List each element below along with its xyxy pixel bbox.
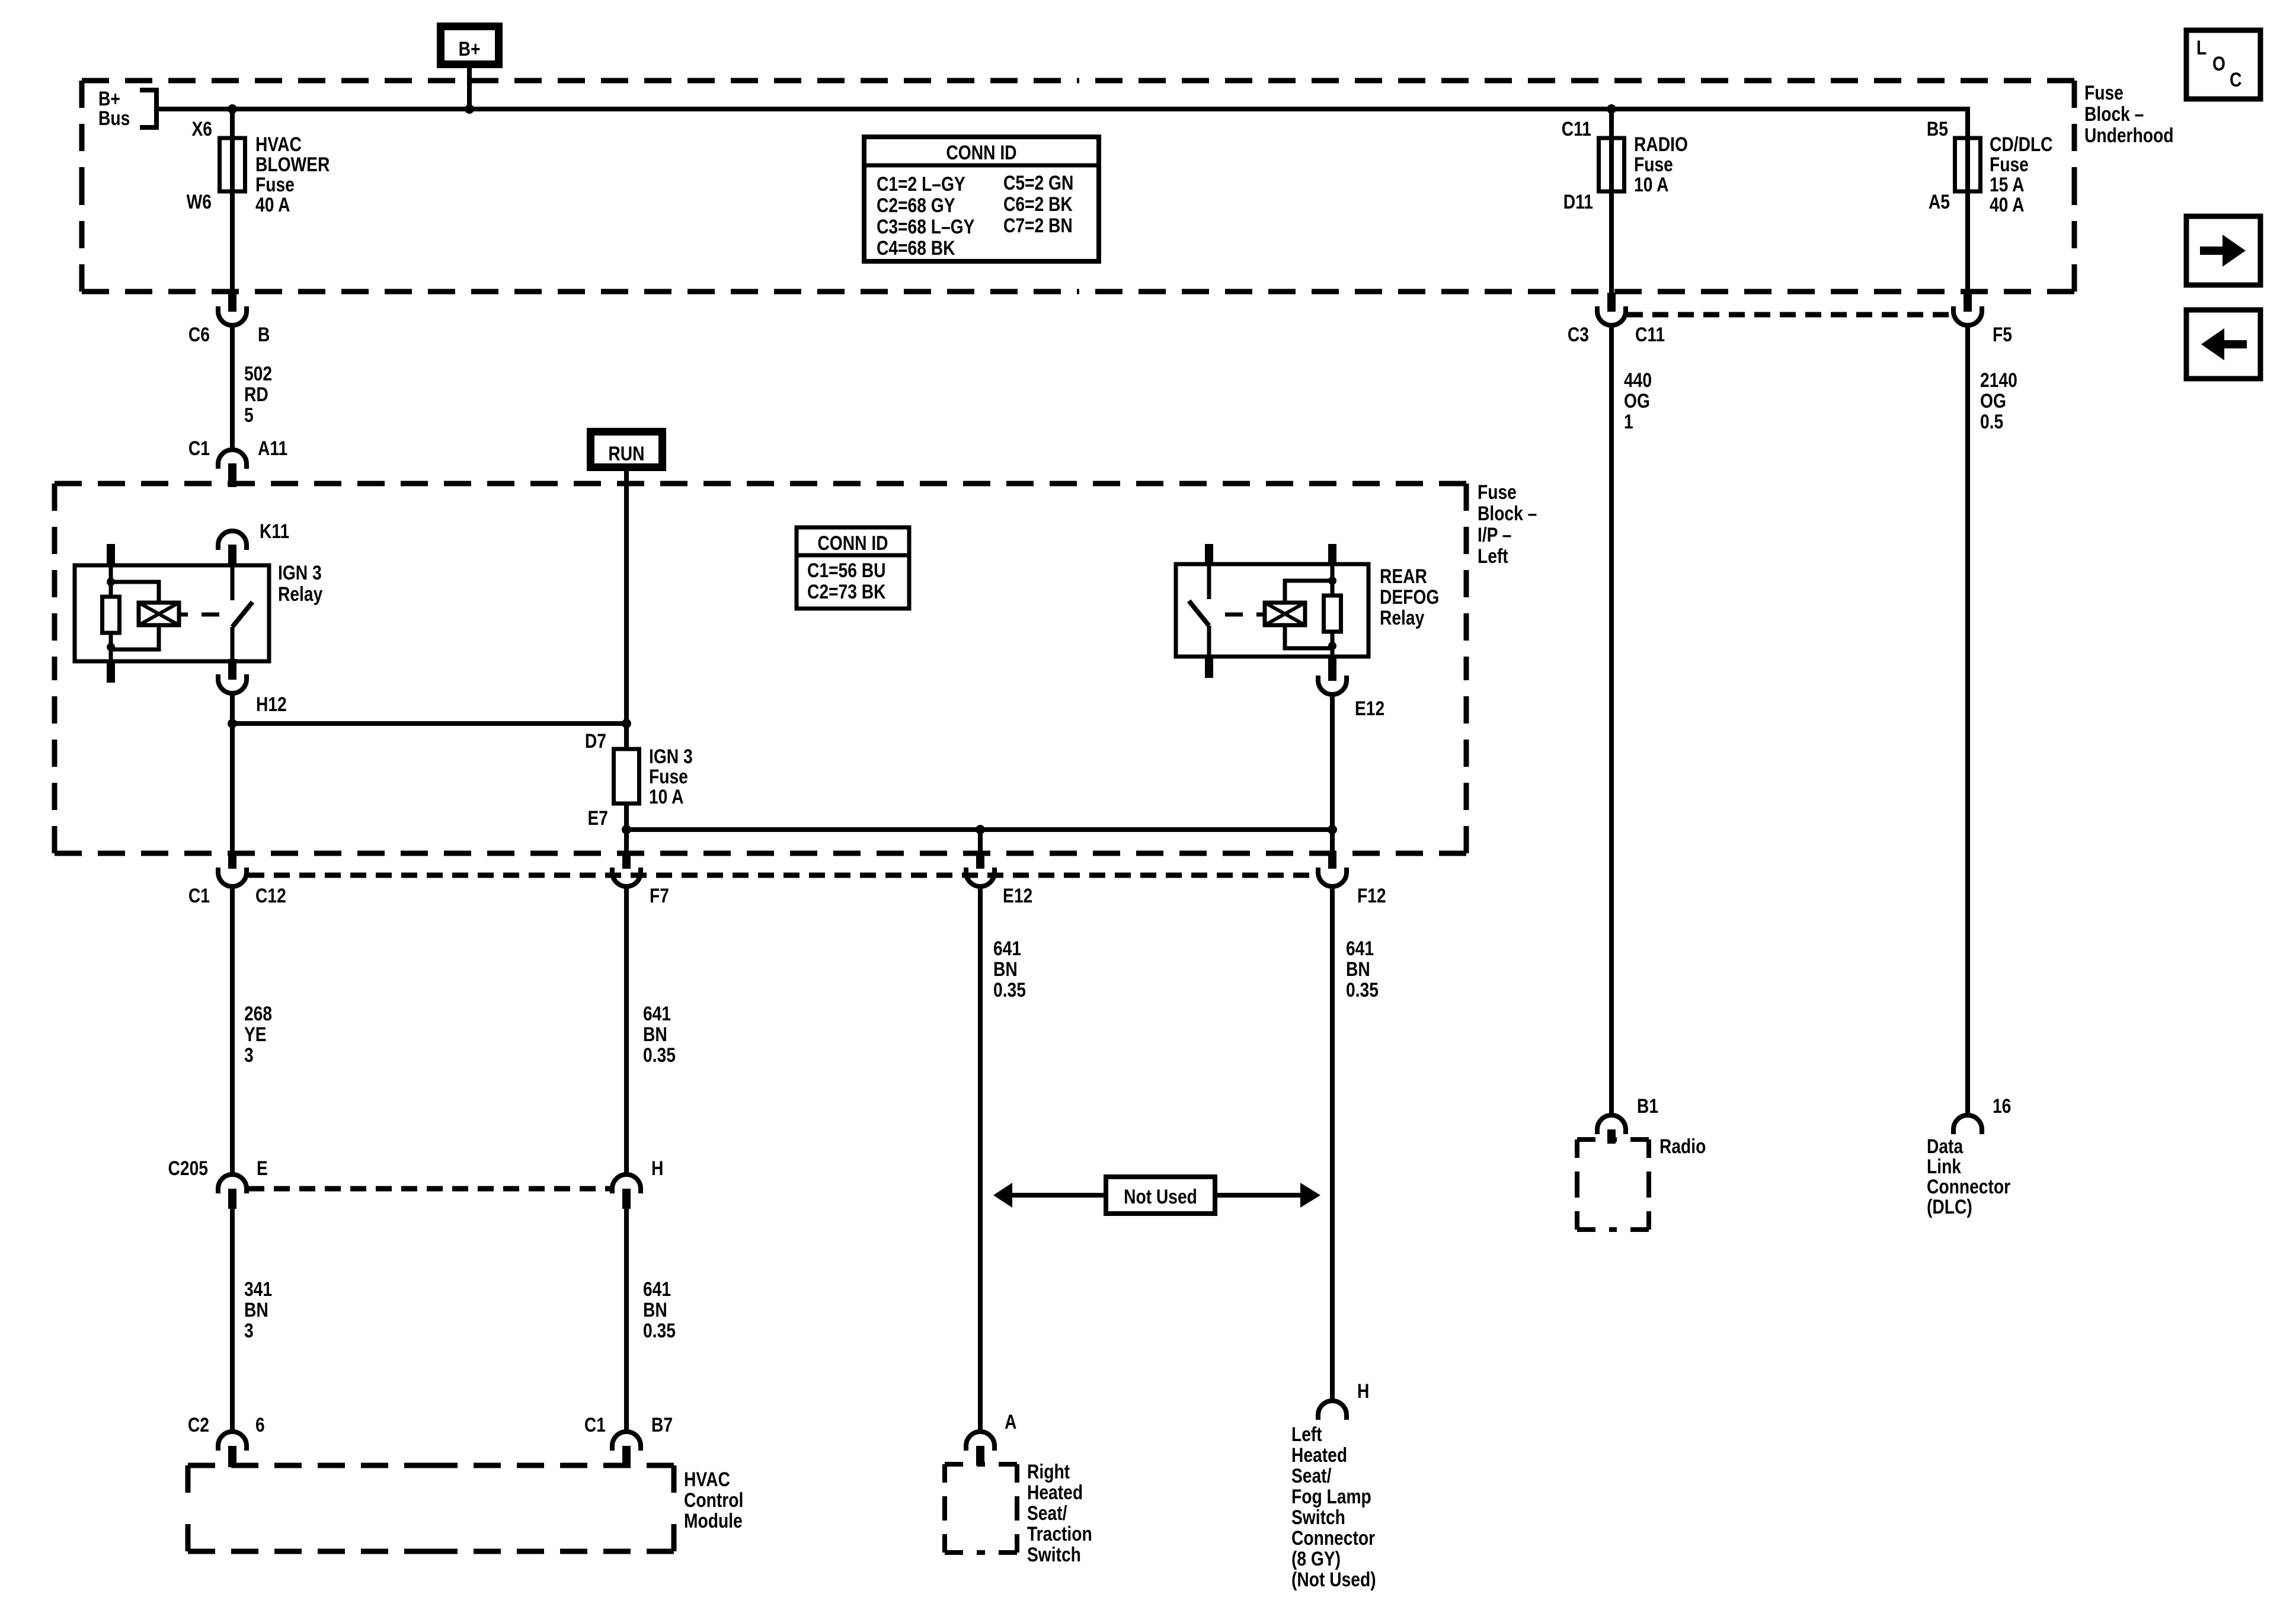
connector C205 terminal E <box>218 1174 247 1193</box>
connector pair dotted line C3 to F5 <box>1627 312 1952 318</box>
page arrow back box <box>2186 310 2260 379</box>
svg-text:BN: BN <box>244 1299 268 1321</box>
svg-text:Control: Control <box>684 1489 743 1512</box>
svg-text:40 A: 40 A <box>255 194 290 216</box>
svg-text:Fuse: Fuse <box>1634 153 1673 176</box>
svg-text:OG: OG <box>1624 390 1650 412</box>
fuse HVAC BLOWER 40A <box>220 138 245 191</box>
connector C6 terminal B <box>228 293 236 312</box>
svg-text:B7: B7 <box>651 1414 673 1436</box>
svg-text:6: 6 <box>255 1414 265 1436</box>
connector C205 terminal H <box>612 1174 641 1193</box>
svg-text:16: 16 <box>1993 1095 2011 1118</box>
svg-text:Relay: Relay <box>1380 607 1425 629</box>
wire RUN to IGN3 fuse <box>624 471 629 749</box>
svg-text:2140: 2140 <box>1980 369 2017 392</box>
svg-text:Relay: Relay <box>278 583 323 606</box>
junction B+ flag tap <box>465 104 474 114</box>
svg-text:K11: K11 <box>260 520 289 543</box>
svg-text:E: E <box>257 1157 268 1180</box>
defog coil resistor <box>1324 596 1341 632</box>
svg-text:C3: C3 <box>1568 324 1589 346</box>
svg-text:0.35: 0.35 <box>1346 979 1379 1001</box>
svg-text:L: L <box>2196 37 2207 59</box>
Not Used box <box>1106 1177 1215 1214</box>
connector DLC terminal 16 <box>1953 1115 1982 1134</box>
svg-text:(8 GY): (8 GY) <box>1291 1548 1341 1570</box>
relay IGN 3 box <box>75 565 269 661</box>
svg-text:10 A: 10 A <box>1634 174 1669 196</box>
fuse block - I/P left dashed box <box>55 481 760 486</box>
svg-text:Switch: Switch <box>1027 1544 1081 1566</box>
relay REAR DEFOG box <box>1176 564 1368 657</box>
Radio dashed box <box>1577 1137 1613 1142</box>
svg-text:15 A: 15 A <box>1990 174 2025 196</box>
svg-text:268: 268 <box>244 1003 272 1025</box>
svg-text:0.35: 0.35 <box>643 1044 676 1067</box>
relay coil resistor <box>103 597 120 633</box>
svg-text:Not Used: Not Used <box>1124 1186 1197 1208</box>
svg-text:Fuse: Fuse <box>2084 82 2124 104</box>
defog coil pin stub top <box>1328 544 1336 564</box>
junction H12 horizontal <box>228 719 237 728</box>
svg-text:B1: B1 <box>1637 1095 1658 1118</box>
fuse block - underhood dashed box <box>82 78 1078 84</box>
svg-text:Fuse: Fuse <box>1478 481 1517 504</box>
junction H12 branch <box>622 719 631 728</box>
svg-text:B+: B+ <box>459 38 481 60</box>
node B+ Bus bracket <box>140 90 156 127</box>
svg-text:C1=56 BU: C1=56 BU <box>807 559 886 582</box>
defog switch <box>1207 564 1211 599</box>
svg-text:D11: D11 <box>1563 191 1593 213</box>
svg-text:HVAC: HVAC <box>255 133 302 156</box>
wire defog E12 down <box>1330 694 1335 856</box>
svg-text:B5: B5 <box>1927 118 1948 140</box>
svg-text:CD/DLC: CD/DLC <box>1990 133 2053 156</box>
wire bus corner down to CD/DLC fuse <box>1965 107 1970 140</box>
svg-text:C4=68 BK: C4=68 BK <box>877 237 955 260</box>
svg-text:RUN: RUN <box>608 443 644 465</box>
fuse CD/DLC 15A 40A <box>1955 138 1981 191</box>
wire 341 BN 3 <box>230 1209 235 1433</box>
svg-text:0.35: 0.35 <box>993 979 1026 1001</box>
svg-text:C11: C11 <box>1562 118 1591 140</box>
svg-text:D7: D7 <box>585 730 606 753</box>
svg-text:Bus: Bus <box>98 107 130 130</box>
svg-text:C12: C12 <box>255 885 286 907</box>
svg-text:641: 641 <box>1346 937 1374 960</box>
relay coil loop <box>111 582 159 603</box>
connector terminal H left heated seat <box>1318 1401 1347 1420</box>
Right Heated Seat dashed box <box>945 1462 981 1467</box>
fuse RADIO 10A <box>1599 138 1625 191</box>
connector terminal A <box>966 1432 994 1451</box>
svg-text:BLOWER: BLOWER <box>255 153 330 176</box>
junction coil bottom <box>107 643 115 651</box>
svg-text:C2=68 GY: C2=68 GY <box>877 194 955 217</box>
svg-text:C1: C1 <box>188 437 210 460</box>
svg-text:F12: F12 <box>1357 885 1386 907</box>
wire 502 RD 5 <box>230 325 235 450</box>
svg-text:CONN ID: CONN ID <box>946 142 1016 164</box>
svg-text:BN: BN <box>993 958 1018 981</box>
wire IGN3 fuse to E7 bus <box>624 804 629 830</box>
connector H12 <box>228 659 236 680</box>
svg-text:O: O <box>2212 53 2225 75</box>
svg-text:641: 641 <box>643 1278 671 1301</box>
svg-text:IGN 3: IGN 3 <box>278 562 322 584</box>
wire CD/DLC fuse to F5 <box>1965 191 1970 294</box>
svg-text:Seat/: Seat/ <box>1291 1465 1332 1487</box>
wire B+ flag to bus <box>467 68 472 109</box>
svg-text:C7=2 BN: C7=2 BN <box>1003 215 1073 237</box>
svg-text:RD: RD <box>244 383 268 406</box>
wire H12 down <box>230 693 235 856</box>
svg-text:Block –: Block – <box>2084 103 2144 126</box>
connector terminal F7 <box>624 830 629 854</box>
svg-text:3: 3 <box>244 1044 254 1067</box>
svg-text:C1: C1 <box>188 885 210 907</box>
junction E12 drop <box>976 825 985 834</box>
svg-text:Heated: Heated <box>1027 1481 1083 1504</box>
svg-text:Left: Left <box>1291 1423 1322 1446</box>
svg-text:Fuse: Fuse <box>1990 153 2029 176</box>
svg-text:Link: Link <box>1927 1156 1962 1178</box>
defog coil loop <box>1285 581 1332 603</box>
connector terminal E12 <box>978 830 983 854</box>
RUN power flag <box>587 428 666 471</box>
table CONN ID underhood <box>864 137 1099 261</box>
svg-text:H: H <box>1357 1380 1369 1403</box>
svg-text:Fog Lamp: Fog Lamp <box>1291 1486 1371 1508</box>
svg-text:BN: BN <box>643 1023 667 1046</box>
svg-text:BN: BN <box>643 1299 667 1321</box>
wire bus to RADIO fuse <box>1609 109 1614 140</box>
table CONN ID I/P <box>797 527 909 609</box>
svg-text:IGN 3: IGN 3 <box>649 745 693 768</box>
svg-text:641: 641 <box>643 1003 671 1025</box>
svg-text:Data: Data <box>1927 1135 1964 1158</box>
svg-text:A: A <box>1005 1411 1016 1433</box>
svg-text:A5: A5 <box>1929 191 1950 213</box>
connector row dotted line C12 to F12 <box>248 873 1317 878</box>
svg-text:C1: C1 <box>584 1414 606 1436</box>
svg-text:C2: C2 <box>188 1414 209 1436</box>
wire 641 BN 0.35 (B7) <box>624 1209 629 1433</box>
svg-text:0.5: 0.5 <box>1980 411 2003 433</box>
wire 641 BN 0.35 (E12) <box>978 886 983 1433</box>
svg-text:C205: C205 <box>168 1157 208 1180</box>
wire H12 to RUN column <box>232 721 626 726</box>
connector K11 <box>218 531 247 550</box>
junction F12 drop <box>1328 825 1337 834</box>
not used arrow right <box>1215 1193 1302 1198</box>
not used arrow left <box>1011 1193 1106 1198</box>
relay coil wire <box>109 565 113 598</box>
svg-text:H: H <box>651 1157 663 1180</box>
connector F5 <box>1964 293 1972 312</box>
svg-text:CONN ID: CONN ID <box>817 532 888 555</box>
svg-text:BN: BN <box>1346 958 1370 981</box>
fuse IGN 3 10A <box>614 749 639 804</box>
page arrow forward box <box>2186 216 2260 285</box>
connector terminal F12 <box>1328 853 1336 869</box>
connector radio terminal B1 <box>1597 1115 1626 1134</box>
svg-text:H12: H12 <box>256 693 287 716</box>
relay coil crossed box <box>139 603 179 625</box>
svg-text:10 A: 10 A <box>649 786 684 808</box>
svg-text:Underhood: Underhood <box>2084 124 2173 147</box>
svg-text:5: 5 <box>244 404 254 427</box>
svg-text:Traction: Traction <box>1027 1523 1092 1545</box>
junction HVAC fuse tap <box>228 104 237 114</box>
connector C1 terminal C12 <box>228 853 236 869</box>
svg-text:C: C <box>2230 69 2241 91</box>
svg-text:C6=2 BK: C6=2 BK <box>1003 193 1073 216</box>
svg-text:C2=73 BK: C2=73 BK <box>807 581 886 603</box>
wire E7 horizontal <box>626 827 1332 832</box>
svg-text:Connector: Connector <box>1927 1176 2010 1198</box>
relay switch <box>231 565 235 600</box>
svg-text:F5: F5 <box>1993 324 2012 346</box>
junction defog coil bottom <box>1328 642 1336 650</box>
svg-text:OG: OG <box>1980 390 2006 412</box>
svg-text:C3=68 L–GY: C3=68 L–GY <box>877 216 975 238</box>
svg-text:641: 641 <box>993 937 1021 960</box>
svg-text:40 A: 40 A <box>1990 194 2025 216</box>
svg-text:X6: X6 <box>191 118 212 140</box>
wire 641 BN 0.35 (F7) <box>624 886 629 1176</box>
junction E7 <box>622 825 631 834</box>
svg-text:C6: C6 <box>188 324 210 346</box>
connector C3 terminal C11 <box>1607 293 1616 312</box>
wire 440 OG 1 <box>1609 325 1614 1116</box>
B+ power flag <box>437 23 503 68</box>
svg-text:3: 3 <box>244 1320 254 1342</box>
svg-text:Switch: Switch <box>1291 1506 1345 1529</box>
wire bus to HVAC BLOWER fuse <box>230 109 235 140</box>
svg-text:E7: E7 <box>587 807 608 830</box>
svg-text:E12: E12 <box>1355 697 1384 720</box>
svg-text:Fuse: Fuse <box>649 766 688 788</box>
defog actuation dashes <box>1225 613 1243 617</box>
defog coil crossed box <box>1265 603 1305 625</box>
svg-text:Heated: Heated <box>1291 1444 1347 1467</box>
connector C205 dotted line E to H <box>248 1186 613 1192</box>
wire 2140 OG 0.5 <box>1965 325 1970 1116</box>
connector C1 terminal B7 <box>612 1432 641 1451</box>
connector E12 below defog relay <box>1328 657 1336 681</box>
svg-text:YE: YE <box>244 1023 267 1046</box>
defog coil wire <box>1331 564 1335 597</box>
svg-text:(DLC): (DLC) <box>1927 1196 1972 1218</box>
svg-text:C1=2 L–GY: C1=2 L–GY <box>877 173 965 196</box>
junction coil top <box>107 578 115 586</box>
svg-text:C5=2 GN: C5=2 GN <box>1003 172 1073 194</box>
connector C2 terminal 6 <box>218 1432 247 1451</box>
wire 268 YE 3 <box>230 886 235 1176</box>
svg-text:E12: E12 <box>1003 885 1032 907</box>
svg-text:341: 341 <box>244 1278 272 1301</box>
svg-text:440: 440 <box>1624 369 1652 392</box>
LOC page reference box <box>2186 30 2260 99</box>
svg-text:Left: Left <box>1478 545 1508 568</box>
svg-text:502: 502 <box>244 363 272 385</box>
svg-text:(Not Used): (Not Used) <box>1291 1569 1376 1591</box>
junction RADIO fuse tap <box>1607 104 1616 114</box>
wire HVAC fuse to C6 <box>230 191 235 294</box>
HVAC Control Module dashed box <box>188 1463 431 1468</box>
wire RADIO fuse to C3 <box>1609 191 1614 294</box>
relay coil pin stubs <box>107 544 115 565</box>
svg-text:I/P –: I/P – <box>1478 524 1512 546</box>
wire 641 BN 0.35 (F12) <box>1330 886 1335 1402</box>
svg-text:Block –: Block – <box>1478 502 1537 525</box>
svg-text:1: 1 <box>1624 411 1633 433</box>
svg-text:DEFOG: DEFOG <box>1380 586 1439 609</box>
svg-text:A11: A11 <box>258 437 287 460</box>
svg-text:B: B <box>258 324 270 346</box>
svg-text:Seat/: Seat/ <box>1027 1502 1067 1525</box>
connector C1 terminal A11 <box>218 450 247 469</box>
svg-text:Connector: Connector <box>1291 1527 1375 1550</box>
junction defog coil top <box>1328 577 1336 585</box>
svg-text:RADIO: RADIO <box>1634 133 1688 156</box>
svg-text:C11: C11 <box>1635 324 1665 346</box>
wire B+ bus horizontal <box>156 107 1968 111</box>
svg-text:HVAC: HVAC <box>684 1468 730 1491</box>
svg-text:Right: Right <box>1027 1461 1070 1483</box>
svg-text:F7: F7 <box>650 885 669 907</box>
svg-text:Radio: Radio <box>1659 1135 1706 1158</box>
relay actuation dashes <box>179 613 188 617</box>
svg-text:W6: W6 <box>187 191 212 213</box>
svg-text:REAR: REAR <box>1380 565 1427 588</box>
svg-text:Fuse: Fuse <box>255 174 295 196</box>
svg-text:0.35: 0.35 <box>643 1320 676 1342</box>
svg-text:Module: Module <box>684 1510 743 1532</box>
defog switch pin stubs <box>1205 544 1213 564</box>
